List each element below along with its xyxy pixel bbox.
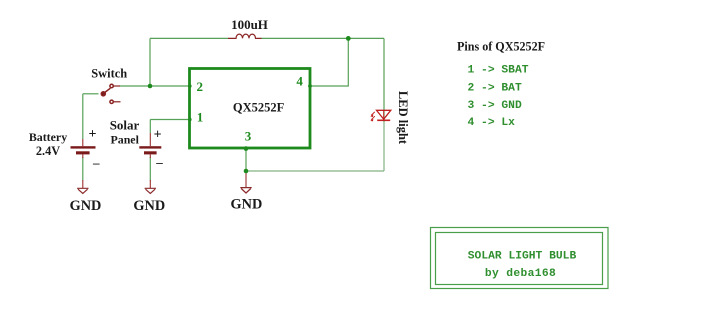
svg-text:2 -> BAT: 2 -> BAT [468,82,522,94]
svg-text:–: – [92,155,100,170]
svg-text:3 -> GND: 3 -> GND [468,100,522,112]
svg-text:4: 4 [296,74,303,89]
svg-text:–: – [155,154,163,169]
svg-text:LED light: LED light [396,91,410,145]
svg-text:QX5252F: QX5252F [233,100,285,114]
svg-text:+: + [89,127,97,142]
svg-text:+: + [154,127,162,142]
svg-text:by deba168: by deba168 [485,268,556,280]
svg-text:Panel: Panel [110,132,139,146]
svg-text:2: 2 [197,79,204,94]
svg-text:1 -> SBAT: 1 -> SBAT [468,65,529,77]
svg-text:100uH: 100uH [231,17,268,32]
svg-text:GND: GND [133,198,165,214]
svg-text:1: 1 [197,110,204,125]
svg-text:Solar: Solar [110,118,140,133]
svg-text:4 -> Lx: 4 -> Lx [468,117,516,129]
svg-text:GND: GND [70,198,102,214]
svg-text:GND: GND [231,197,263,213]
svg-text:2.4V: 2.4V [36,144,60,158]
svg-text:Pins of QX5252F: Pins of QX5252F [457,40,545,54]
svg-text:3: 3 [245,128,252,143]
svg-text:Switch: Switch [91,67,127,81]
svg-text:SOLAR LIGHT BULB: SOLAR LIGHT BULB [468,250,577,262]
svg-text:Battery: Battery [29,130,67,144]
